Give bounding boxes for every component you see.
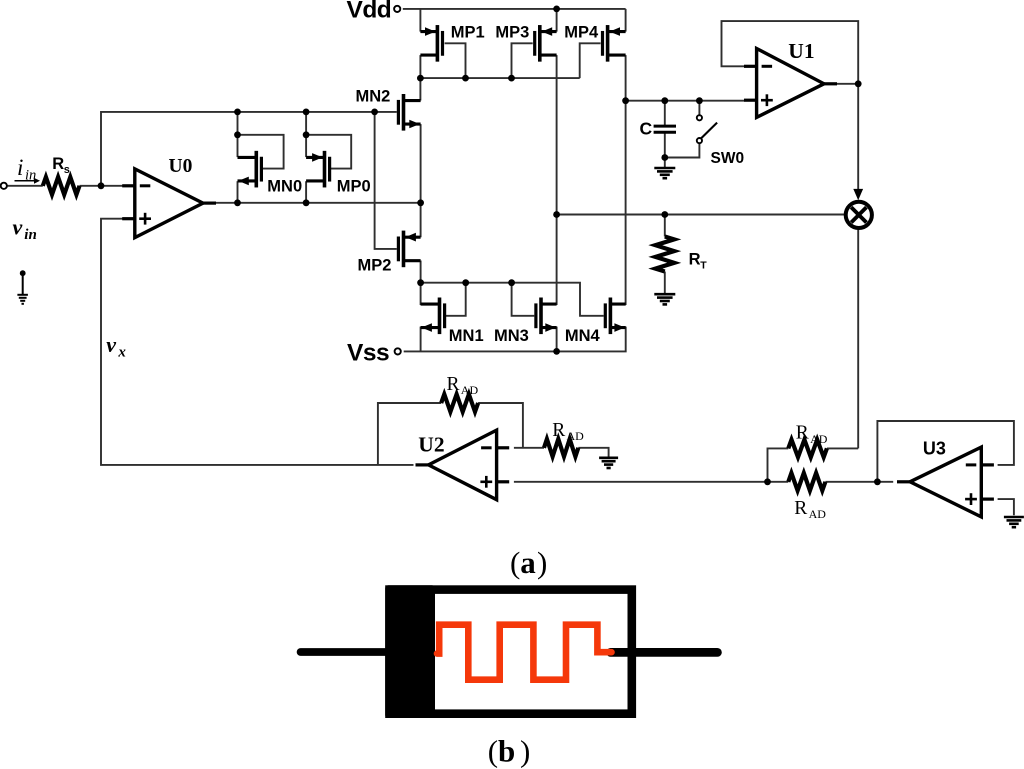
wire U0 output line: [212, 202, 421, 204]
ground under C: [654, 168, 675, 178]
svg-text:MP1: MP1: [451, 24, 485, 42]
svg-text:v: v: [13, 214, 23, 239]
label MP3: [495, 24, 529, 42]
wire RT top: [664, 215, 666, 237]
wire MN3 gate loop: [512, 283, 535, 316]
resistor Rs: [43, 177, 80, 195]
wire MP1 drain down: [419, 55, 421, 78]
wire U0 minus input: [101, 185, 123, 187]
label MP1: [451, 24, 485, 42]
label vx: [106, 332, 126, 361]
op-amp U2: [416, 430, 510, 500]
svg-text:AD: AD: [809, 507, 827, 521]
svg-text:Vdd: Vdd: [347, 0, 392, 24]
label MN3: [494, 327, 529, 345]
transistor MP0: [306, 151, 330, 188]
node dots on NMOS mirror rail: [417, 279, 515, 286]
wire upper RAD left leg: [768, 448, 789, 481]
svg-text:U1: U1: [788, 39, 814, 63]
label SW0: [711, 150, 745, 167]
label U0: [169, 156, 193, 177]
wire upper RAD right leg: [827, 447, 858, 449]
svg-text:U3: U3: [923, 438, 946, 458]
label MP0: [337, 177, 371, 195]
label RAD input U2: [552, 420, 584, 443]
ground at U2 input RAD: [599, 458, 618, 468]
label MN4: [565, 327, 601, 345]
label RAD lower U3: [794, 498, 826, 521]
wire MP3 drain to node line: [556, 55, 558, 214]
svg-text:R: R: [447, 374, 460, 395]
label MN2: [356, 88, 391, 106]
input terminal: [1, 183, 7, 189]
svg-text:v: v: [106, 332, 116, 357]
wire vx feedback: [101, 219, 414, 465]
switch SW0: [697, 115, 717, 143]
label MP2: [358, 256, 392, 274]
wire Vdd rail: [403, 8, 626, 10]
transistor MN2: [398, 94, 420, 131]
svg-text:MN0: MN0: [267, 177, 302, 195]
memristor left lead: [301, 648, 390, 656]
wire U3 feedback loop: [877, 421, 1014, 482]
node dots on integrator rail: [622, 97, 703, 104]
label RT: [689, 250, 708, 271]
wire MP0 source down: [305, 181, 307, 203]
resistor RAD upper U3: [788, 440, 827, 458]
label vin: [13, 214, 37, 243]
svg-text:R: R: [689, 250, 701, 268]
label RAD feedback U2: [447, 374, 479, 397]
wire U1 feedback loop: [722, 21, 859, 84]
svg-text:MP4: MP4: [564, 24, 599, 42]
resistor RT: [655, 237, 674, 272]
node on Vss rail: [553, 348, 560, 355]
wire MP3 gate to mirror rail: [512, 43, 533, 78]
label Rs: [52, 155, 70, 176]
wire multiplier to RAD network: [857, 229, 859, 448]
wire MN3 drain up: [556, 215, 558, 306]
wire U3 plus to ground: [998, 499, 1014, 515]
label C: [640, 118, 653, 138]
wire NMOS mirror rail: [421, 283, 604, 316]
memristor state wave: [437, 625, 612, 680]
node C bottom junction: [661, 154, 668, 161]
wire SW0 bottom leg: [665, 143, 700, 157]
wire lower RAD to U3: [825, 481, 893, 483]
wire MN2 source down: [420, 124, 422, 203]
svg-text:R: R: [52, 155, 64, 173]
wire MP4 source to Vdd rail: [625, 9, 627, 32]
Vdd terminal: [394, 6, 400, 12]
label iin with arrow: [15, 155, 41, 184]
wire C top: [664, 101, 666, 126]
wire MN2 drain up: [419, 78, 421, 100]
transistor MN3: [536, 298, 557, 335]
svg-text:): ): [537, 545, 547, 580]
label U1: [788, 39, 814, 63]
wire MP0 gate loop: [306, 135, 351, 169]
svg-text:R: R: [794, 498, 807, 519]
svg-text:(: (: [510, 545, 520, 580]
label Vdd: [347, 0, 392, 24]
ground under RT: [654, 294, 675, 304]
transistor MN0: [238, 151, 262, 188]
svg-text:a: a: [520, 545, 536, 580]
svg-text:MP3: MP3: [495, 24, 529, 42]
label Vss: [347, 340, 389, 367]
wire PMOS mirror gate rail: [420, 77, 579, 79]
label (a): [510, 545, 547, 580]
op-amp U0: [122, 169, 216, 238]
wire MP2 source up: [420, 203, 422, 238]
wire MP0 drop: [305, 112, 307, 157]
wire U1 output to node: [837, 83, 859, 85]
ground at U3 plus input: [1004, 517, 1024, 527]
wire MN1 source down: [420, 327, 422, 352]
wire MP1 gate to mirror rail: [445, 43, 466, 78]
wire Vss rail: [404, 327, 626, 352]
transistor MN4: [605, 298, 625, 335]
node dots on U0 output line: [234, 199, 424, 206]
Vss terminal: [395, 348, 401, 354]
wire MN0 source down: [237, 181, 239, 203]
svg-text:s: s: [64, 164, 70, 176]
wire integrator rail: [626, 100, 745, 102]
wire input lead: [7, 185, 43, 187]
wire U2 minus line: [514, 447, 544, 449]
node dots on bottom line: [764, 478, 881, 485]
wire gate line MN2-MP2: [375, 112, 397, 249]
wire C bottom: [664, 132, 666, 167]
wire U2 input RAD to ground: [578, 448, 608, 457]
node dots on node line: [553, 211, 668, 218]
svg-text:AD: AD: [810, 432, 828, 446]
wire MP2 drain down: [420, 261, 422, 283]
wire MP4 drain to MN4 drain: [625, 55, 627, 305]
svg-text:SW0: SW0: [711, 150, 745, 167]
node dots on PMOS mirror rail: [417, 75, 515, 82]
memristor doped region (black block): [385, 585, 435, 718]
resistor RAD feedback U2: [441, 394, 478, 412]
resistor RAD input U2: [544, 439, 578, 457]
svg-text:MN3: MN3: [494, 327, 529, 345]
wire summing node to gate rail: [101, 112, 397, 186]
svg-text:AD: AD: [461, 383, 479, 397]
label RAD upper U3: [796, 422, 828, 445]
label (b): [488, 734, 531, 769]
node U1 output: [855, 80, 862, 87]
wire MN1 gate loop: [445, 283, 466, 316]
transistor MN1: [421, 298, 445, 335]
svg-text:(: (: [488, 734, 498, 769]
node dots on gate rail: [234, 109, 378, 116]
wire U2 feedback left leg: [378, 403, 441, 465]
svg-text:b: b: [498, 734, 515, 769]
svg-text:U0: U0: [169, 156, 193, 177]
svg-text:): ): [520, 734, 530, 769]
svg-text:MN1: MN1: [449, 327, 484, 345]
svg-text:R: R: [796, 422, 809, 443]
node dots MN0 MP0 gate taps: [234, 131, 309, 138]
transistor MP2: [398, 231, 420, 268]
svg-text:MN4: MN4: [565, 327, 601, 345]
node summing junction: [98, 182, 105, 189]
svg-text:U2: U2: [418, 433, 444, 457]
wire U1 output down to multiplier: [857, 84, 859, 198]
multiplier (X in circle): [846, 202, 872, 228]
svg-text:C: C: [640, 118, 653, 138]
resistor RAD lower U3: [788, 473, 825, 491]
label U2: [418, 433, 444, 457]
label MN0: [267, 177, 302, 195]
memristor body: [390, 590, 632, 714]
wire MN3 source down: [556, 327, 558, 352]
wire MP4 gate to mirror rail: [580, 43, 601, 78]
svg-text:R: R: [552, 420, 565, 441]
wire U2 feedback loop: [478, 403, 523, 448]
wire MN1 drain up: [420, 283, 422, 305]
svg-text:Vss: Vss: [347, 340, 389, 367]
node on Vdd rail: [553, 5, 560, 12]
wire bottom line: [514, 481, 788, 483]
wire SW0 top stub: [698, 101, 700, 115]
wire Rs to summing node: [80, 185, 102, 187]
transistor MP1: [420, 25, 442, 62]
ground at vin reference: [17, 270, 28, 303]
transistor MP4: [603, 25, 626, 62]
wire MN0 gate loop: [238, 135, 284, 169]
op-amp U1: [744, 49, 837, 118]
memristor right lead: [611, 648, 718, 657]
wire RT bottom: [664, 272, 666, 294]
svg-text:x: x: [117, 344, 126, 360]
svg-text:MP2: MP2: [358, 256, 392, 274]
capacitor C: [654, 126, 676, 132]
op-amp U3: [897, 447, 994, 517]
wire node line to multiplier: [557, 214, 845, 216]
transistor MP3: [535, 25, 557, 62]
svg-text:AD: AD: [567, 429, 585, 443]
svg-text:i: i: [17, 155, 23, 180]
svg-text:T: T: [700, 259, 707, 271]
label U3: [923, 438, 946, 458]
svg-text:in: in: [24, 227, 37, 243]
svg-text:MP0: MP0: [337, 177, 371, 195]
arrow into multiplier: [853, 189, 863, 200]
label MP4: [564, 24, 599, 42]
wire MP3 source to Vdd rail: [556, 9, 558, 32]
wire MN0 drop: [237, 112, 239, 157]
svg-text:MN2: MN2: [356, 88, 391, 106]
label MN1: [449, 327, 484, 345]
wire MP1 source to Vdd rail: [419, 9, 421, 32]
